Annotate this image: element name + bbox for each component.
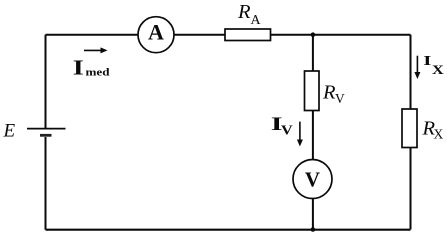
wire top [46,34,411,36]
label I_V with arrow [271,113,303,146]
wire left [45,35,47,230]
svg-text:I: I [73,57,84,80]
label R_X [422,117,444,141]
battery E [27,129,66,136]
svg-text:V: V [281,124,293,138]
voltmeter V [293,160,332,199]
resistor R_A [225,29,271,41]
svg-text:V: V [335,91,345,106]
node junction bottom [311,227,316,232]
svg-text:R: R [322,81,336,103]
ammeter A [138,17,174,53]
node junction top [311,32,316,37]
resistor R_X [402,109,417,148]
svg-text:A: A [251,13,262,28]
label R_V [322,81,345,106]
label I_X with arrow [414,52,444,79]
wire bottom [46,229,411,231]
svg-text:X: X [432,63,444,77]
svg-text:E: E [3,121,16,142]
svg-text:V: V [305,168,320,192]
svg-text:X: X [434,127,444,142]
svg-text:I: I [423,52,431,68]
svg-text:R: R [237,1,251,23]
svg-text:A: A [148,20,164,45]
svg-text:med: med [86,66,110,78]
label R_A [237,1,262,28]
wire middle branch [312,35,314,230]
resistor R_V [305,71,320,111]
label I_med with arrow [73,47,110,79]
wire right [410,35,412,230]
